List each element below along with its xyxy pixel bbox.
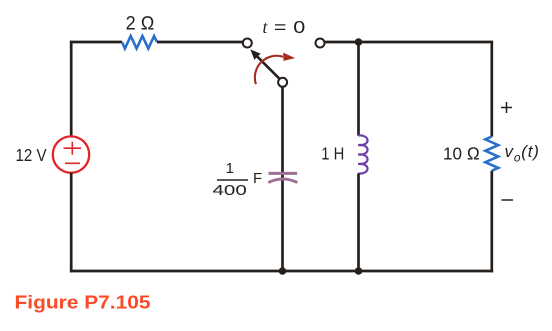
switch blade (257, 56, 280, 79)
capacitor C 1/400F curved bottom plate (268, 179, 297, 183)
svg-text:10 Ω: 10 Ω (443, 143, 480, 163)
wire: switch pivot down to capacitor (281, 87, 284, 273)
voltage source plus sign (64, 142, 82, 155)
junction node top of inductor branch (355, 38, 363, 46)
switch blade arrowhead (250, 49, 260, 59)
wire: left vertical below source (70, 173, 73, 273)
svg-text:1: 1 (226, 160, 234, 177)
inductor L 1H coil (358, 135, 367, 173)
svg-text:400: 400 (213, 182, 247, 199)
plus polarity mark (501, 102, 512, 113)
switch left contact circle (243, 39, 252, 48)
wire: top-right horizontal segment (324, 41, 493, 44)
switch right contact circle (316, 39, 325, 48)
junction node bottom of capacitor branch (279, 267, 287, 275)
wire: top segment between resistor and switch left contact (157, 41, 243, 44)
wire: right vertical below resistor (490, 171, 493, 273)
wire: right vertical above resistor (490, 41, 493, 137)
switch pivot circle (278, 78, 287, 87)
switch motion red arc (255, 56, 283, 84)
resistor R 2ohm zigzag (122, 36, 157, 49)
wire: left vertical above source (70, 41, 73, 137)
resistor R 10ohm zigzag (485, 137, 498, 171)
svg-text:2 Ω: 2 Ω (126, 14, 155, 35)
wire: inductor branch lower (357, 173, 360, 272)
capacitor C 1/400F top plate (269, 172, 298, 175)
voltage source V1 12V circle (53, 136, 89, 172)
voltage source minus sign (65, 162, 80, 164)
svg-text:12 V: 12 V (16, 145, 47, 165)
minus polarity mark (502, 199, 514, 201)
switch motion red arrowhead (283, 53, 295, 61)
wire: top-left horizontal segment (70, 41, 122, 44)
svg-text:F: F (253, 170, 262, 187)
wire: inductor branch upper (357, 42, 360, 136)
label 1/400 F fraction (213, 160, 263, 199)
wire: bottom horizontal (70, 270, 493, 273)
junction node bottom of inductor branch (355, 267, 363, 275)
svg-text:1 H: 1 H (321, 144, 344, 164)
svg-text:Figure P7.105: Figure P7.105 (15, 293, 151, 313)
